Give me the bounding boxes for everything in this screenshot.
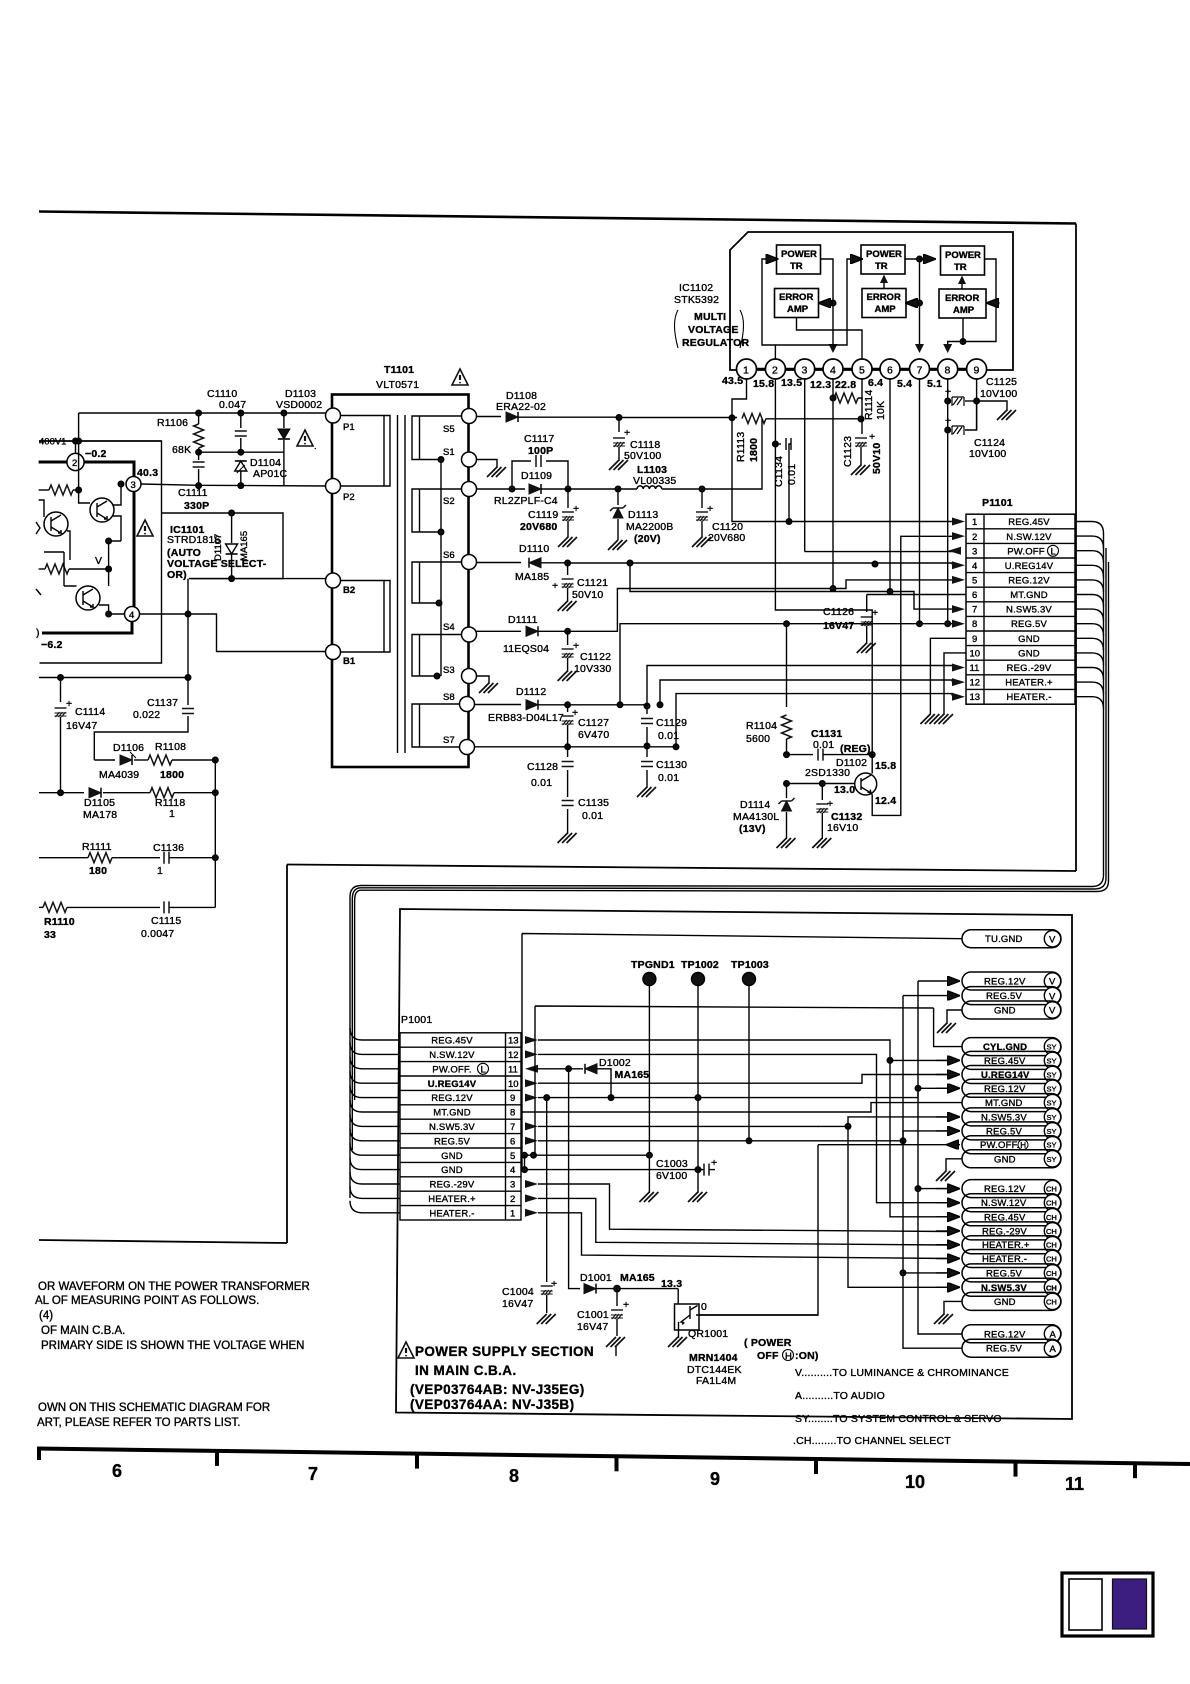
IC1101 outer box — [39, 441, 162, 663]
C1115 capacitor — [164, 901, 215, 913]
pin1 drop wire — [732, 379, 960, 524]
error AMP box 2 — [862, 289, 906, 318]
svg-text:C1122: C1122 — [580, 651, 611, 663]
R1104 resistor — [782, 621, 792, 757]
primary winding P1-P2 — [333, 416, 390, 487]
svg-text:A..........TO AUDIO: A..........TO AUDIO — [795, 1390, 885, 1402]
svg-text:TPGND1: TPGND1 — [631, 959, 675, 971]
ground stub GND V — [937, 1010, 962, 1033]
svg-text:13.5: 13.5 — [781, 377, 802, 389]
svg-text:H: H — [785, 1351, 792, 1362]
svg-text:0.047: 0.047 — [219, 399, 246, 411]
svg-text:HEATER.-: HEATER.- — [429, 1208, 474, 1219]
svg-text:N.SW.12V: N.SW.12V — [429, 1050, 475, 1061]
svg-text:CH: CH — [1046, 1213, 1057, 1222]
R1104 labels — [746, 720, 777, 745]
5V net S8 — [565, 621, 952, 708]
svg-text:T1101: T1101 — [384, 364, 414, 376]
svg-text::ON): :ON) — [795, 1350, 819, 1362]
pill N.SW5.3V SY — [936, 1108, 1061, 1126]
pill TU.GND V — [962, 930, 1061, 948]
C1126 capacitor — [857, 595, 879, 654]
svg-text:C1121: C1121 — [577, 577, 608, 589]
svg-text:4: 4 — [510, 1165, 515, 1176]
svg-text:+: + — [573, 503, 579, 515]
svg-text:H: H — [1020, 1141, 1026, 1150]
svg-text:15.8: 15.8 — [875, 760, 896, 772]
svg-text:43.5: 43.5 — [722, 375, 743, 387]
C1125 labels — [980, 376, 1017, 400]
R1111 labels — [82, 841, 112, 877]
row7 wire NSW53V — [538, 1117, 948, 1129]
svg-text:5: 5 — [510, 1151, 515, 1162]
IC1102 labels — [674, 282, 719, 306]
svg-text:S5: S5 — [443, 424, 455, 435]
svg-text:13.3: 13.3 — [661, 1278, 682, 1290]
C1124 labels — [969, 437, 1006, 460]
pin5 drop wire — [861, 379, 863, 434]
pin P2 — [326, 479, 355, 504]
wire bundle left vertical — [350, 897, 355, 1198]
svg-text:RL2ZPLF-C4: RL2ZPLF-C4 — [494, 495, 558, 507]
IC1101 inner box — [162, 513, 284, 579]
C1121 capacitor — [552, 563, 577, 611]
svg-text:CH: CH — [1046, 1269, 1057, 1278]
C1111 labels — [178, 487, 209, 512]
svg-text:VLT0571: VLT0571 — [376, 379, 419, 391]
D1114 zener — [777, 784, 796, 849]
svg-text:IC1102: IC1102 — [679, 282, 713, 294]
row11 wire PWOFF — [538, 1068, 583, 1070]
power TR box 2 — [861, 245, 905, 274]
C1004 capacitor — [537, 1098, 558, 1324]
svg-text:D1111: D1111 — [508, 614, 538, 626]
svg-text:POWER SUPPLY SECTION: POWER SUPPLY SECTION — [415, 1344, 594, 1359]
svg-text:S4: S4 — [443, 622, 455, 633]
svg-text:U.REG14V: U.REG14V — [428, 1079, 477, 1090]
ruler tick 1 — [215, 1451, 219, 1466]
svg-text:AP01C: AP01C — [253, 468, 287, 480]
Q1102 emitter net 12.4 — [872, 536, 953, 815]
svg-text:REG.12V: REG.12V — [1008, 576, 1050, 587]
C1126 labels — [823, 606, 854, 632]
D1104 label — [250, 457, 287, 480]
bottom section box — [396, 909, 1072, 1419]
svg-text:0.01: 0.01 — [813, 739, 834, 751]
svg-text:): ) — [36, 627, 40, 639]
-29V net wire — [644, 666, 952, 709]
base wire Q upper — [79, 490, 90, 503]
Q1102 base wire — [784, 781, 855, 787]
svg-text:20V680: 20V680 — [520, 521, 557, 533]
pin8 drop wire — [945, 379, 951, 627]
svg-text:.CH........TO CHANNEL SELECT: .CH........TO CHANNEL SELECT — [793, 1435, 951, 1447]
svg-text:5: 5 — [972, 576, 977, 587]
svg-text:MT.GND: MT.GND — [433, 1108, 471, 1119]
svg-text:GND: GND — [441, 1151, 463, 1162]
svg-text:TP1003: TP1003 — [731, 959, 769, 971]
pin S7 — [443, 735, 475, 755]
C1122 capacitor — [558, 631, 580, 681]
svg-text:.: . — [314, 441, 317, 452]
C1003 capacitor — [688, 1157, 717, 1202]
D1113 labels — [626, 509, 674, 545]
C1136 labels — [153, 842, 184, 877]
svg-text:+: + — [623, 1299, 629, 1311]
C1121 labels — [572, 577, 608, 601]
svg-text:R1113: R1113 — [735, 432, 747, 462]
C1114 labels — [66, 706, 105, 732]
pin 7 — [897, 359, 930, 390]
D1113 zener — [608, 489, 627, 550]
D1106 labels — [99, 742, 144, 781]
pin S1 — [443, 447, 477, 467]
pin 6 — [868, 359, 900, 389]
45V net wire — [616, 415, 737, 421]
ruler tick 4 — [814, 1459, 818, 1474]
pin6 drop wire — [889, 379, 891, 592]
svg-text:ART, PLEASE REFER TO PARTS LIS: ART, PLEASE REFER TO PARTS LIST. — [37, 1417, 240, 1429]
20V net junction — [615, 486, 621, 492]
svg-text:R1104: R1104 — [746, 720, 777, 732]
svg-text:5.1: 5.1 — [927, 378, 942, 390]
pin P1 — [326, 408, 355, 433]
row10 wire UREG14V — [538, 1075, 948, 1084]
transistor Q upper — [90, 498, 114, 522]
svg-text:13: 13 — [970, 692, 981, 703]
P1101 GND row10 wire — [934, 653, 966, 724]
pill N.SW5.3V CH — [936, 1278, 1061, 1296]
svg-text:3: 3 — [131, 480, 136, 491]
wire bundle right vertical — [1104, 534, 1109, 882]
C1004 labels — [502, 1286, 534, 1310]
svg-text:REG.12V: REG.12V — [431, 1093, 473, 1104]
svg-text:40.3: 40.3 — [137, 467, 158, 479]
svg-text:AL OF MEASURING POINT AS FOLLO: AL OF MEASURING POINT AS FOLLOWS. — [35, 1295, 259, 1307]
error AMP box 1 — [775, 289, 819, 318]
svg-text:MT.GND: MT.GND — [1010, 590, 1048, 601]
wires transistor mesh — [109, 481, 124, 541]
svg-text:IN MAIN C.B.A.: IN MAIN C.B.A. — [415, 1363, 517, 1378]
svg-text:2: 2 — [972, 532, 977, 543]
svg-text:REG.5V: REG.5V — [434, 1136, 471, 1147]
D1111 diode — [526, 626, 568, 636]
secondary winding S4 — [412, 635, 468, 677]
R1114 resistor — [834, 393, 862, 403]
wire S2 to D1109 — [477, 488, 526, 490]
D1105 labels — [83, 797, 117, 821]
pill REG.5V SY — [936, 1122, 1061, 1140]
svg-text:R1110: R1110 — [44, 916, 75, 928]
pill MT.GND SY — [962, 1094, 1061, 1112]
C1128 labels — [527, 761, 558, 789]
C1124 capacitor — [945, 401, 977, 435]
svg-text:3: 3 — [510, 1180, 515, 1191]
pill REG.12V CH — [936, 1180, 1061, 1198]
svg-text:CH: CH — [1046, 1185, 1057, 1194]
D1108 diode — [506, 412, 619, 422]
svg-text:C1126: C1126 — [823, 606, 854, 618]
svg-text:10K: 10K — [875, 401, 887, 420]
outer schematic border top — [39, 212, 1076, 224]
pin S6 — [443, 550, 477, 570]
svg-text:REG.-29V: REG.-29V — [430, 1180, 475, 1191]
svg-text:C1119: C1119 — [528, 509, 558, 521]
row2 wire HEATER+ — [538, 1198, 948, 1245]
D1105 wire — [39, 790, 84, 796]
svg-text:V: V — [1049, 1006, 1056, 1017]
pin3 drop wire PW.OFF — [805, 379, 960, 552]
svg-text:V: V — [95, 555, 102, 567]
D1108 labels — [496, 390, 546, 413]
power TR box 3 — [941, 246, 985, 275]
svg-text:( POWER: ( POWER — [744, 1337, 792, 1349]
warning triangle right of D1103 — [297, 430, 317, 452]
svg-text:9: 9 — [710, 1469, 720, 1489]
IC1102 block outline — [730, 232, 1013, 370]
thick wire node3 to node4 — [133, 492, 136, 608]
svg-text:15.8: 15.8 — [753, 378, 774, 390]
node2 to 400V1 wire stub — [73, 438, 79, 453]
R1118 resistor — [150, 788, 218, 798]
svg-text:+: + — [945, 386, 951, 398]
svg-text:REGULATOR: REGULATOR — [682, 337, 750, 349]
GND V wire — [535, 1006, 962, 1155]
R1106 resistor — [194, 410, 204, 455]
pin 8 — [927, 359, 958, 390]
secondary winding S5-S1 — [412, 416, 468, 460]
TP1003 test point — [731, 959, 769, 1144]
svg-text:OF MAIN C.B.A.: OF MAIN C.B.A. — [41, 1325, 125, 1337]
svg-text:SY: SY — [1047, 1056, 1057, 1065]
C1129 labels — [656, 717, 687, 742]
P1001 PW.OFF L circle — [478, 1063, 489, 1075]
IC1102 internal wiring ch1 — [762, 259, 862, 359]
QR1001 transistor — [668, 1289, 818, 1347]
svg-text:+: + — [869, 431, 875, 443]
svg-text:10V330: 10V330 — [574, 663, 611, 675]
svg-text:U.REG14V: U.REG14V — [1005, 561, 1054, 572]
D1107 diode vertical — [226, 510, 238, 581]
svg-text:7: 7 — [510, 1122, 515, 1133]
C1123 capacitor — [851, 431, 875, 475]
svg-text:330P: 330P — [184, 500, 209, 512]
pin 2 — [753, 359, 785, 390]
C1120 labels — [708, 521, 745, 544]
R1114 labels rotated — [863, 390, 887, 420]
svg-text:6V470: 6V470 — [578, 729, 609, 741]
R1111 resistor — [39, 853, 160, 863]
C1134 labels rotated — [773, 456, 798, 487]
pin 4 — [810, 359, 843, 391]
svg-text:OWN ON THIS SCHEMATIC DIAGRAM: OWN ON THIS SCHEMATIC DIAGRAM FOR — [38, 1402, 270, 1414]
svg-text:SY: SY — [1047, 1099, 1057, 1108]
wire V node vertical — [106, 538, 112, 586]
TPGND1 test point — [631, 959, 675, 1202]
svg-text:C1130: C1130 — [656, 759, 687, 771]
wire B2 to inner box — [189, 578, 326, 580]
C1122 labels — [574, 651, 611, 675]
vertical net x215 — [213, 760, 219, 907]
svg-text:7: 7 — [972, 605, 977, 616]
svg-text:68K: 68K — [172, 444, 191, 456]
pin B1 — [326, 645, 356, 668]
wire S7 — [475, 743, 679, 749]
secondary tap wire — [434, 457, 444, 679]
pill REG.5V CH — [936, 1264, 1061, 1282]
pin9 drop wire — [974, 379, 1007, 430]
svg-text:C1111: C1111 — [178, 487, 208, 499]
svg-text:0.01: 0.01 — [658, 772, 679, 784]
R1106 labels — [157, 417, 191, 456]
PW.OFF L circle — [1048, 545, 1059, 557]
svg-text:CH: CH — [1046, 1283, 1057, 1292]
svg-text:AMP: AMP — [787, 304, 809, 315]
row9 wire REG12V — [538, 1086, 948, 1101]
svg-text:C1001: C1001 — [577, 1309, 609, 1321]
link S8 net to C1129 — [617, 702, 647, 708]
IC1102 pin row line — [737, 368, 986, 371]
C1110 label — [207, 388, 246, 411]
svg-text:0: 0 — [701, 1301, 707, 1313]
wire S4 to D1111 — [477, 630, 522, 632]
svg-text:C1128: C1128 — [527, 761, 558, 773]
svg-text:(VEP03764AB: NV-J35EG): (VEP03764AB: NV-J35EG) — [410, 1382, 585, 1397]
svg-text:MA178: MA178 — [83, 809, 117, 821]
svg-text:R1108: R1108 — [155, 741, 186, 753]
svg-text:2SD1330: 2SD1330 — [805, 767, 850, 779]
pill REG.12V V — [946, 972, 1061, 990]
TP1002 test point — [681, 959, 719, 1170]
svg-text:R1114: R1114 — [863, 390, 875, 420]
P1001 pin labels — [428, 1036, 477, 1220]
D1001 wire — [569, 1069, 580, 1289]
Q1102 transistor — [855, 773, 877, 795]
N.SW5.3V wire row7 — [627, 560, 952, 609]
svg-text:S7: S7 — [443, 735, 455, 746]
pin4 drop wire — [830, 379, 836, 591]
REG12V vertical to CH and A — [915, 981, 962, 1334]
svg-text:9: 9 — [510, 1093, 515, 1104]
resistor mid (cut) — [39, 564, 112, 574]
C1132 labels — [827, 811, 862, 834]
R1108 resistor — [148, 755, 218, 765]
svg-text:CH: CH — [1046, 1297, 1057, 1306]
svg-text:S6: S6 — [443, 550, 455, 561]
pin7 drop wire — [919, 379, 921, 624]
P1001 row arrows — [525, 1036, 538, 1217]
svg-text:+: + — [707, 503, 713, 515]
outer border right edge — [1075, 224, 1077, 872]
R1108 labels — [155, 741, 186, 781]
TU.GND wire — [522, 934, 962, 1170]
svg-text:S8: S8 — [443, 692, 455, 703]
pill HEATER.+ CH — [936, 1236, 1061, 1254]
svg-text:AMP: AMP — [875, 304, 897, 315]
D1112 diode — [526, 700, 568, 710]
C1125 capacitor — [945, 386, 977, 406]
svg-text:L: L — [1051, 547, 1056, 558]
row12 wire NSW12V — [538, 1054, 948, 1202]
svg-text:C1123: C1123 — [842, 436, 854, 467]
cut glyph marks left edge — [36, 522, 41, 595]
D1111 labels — [503, 614, 549, 655]
svg-text:TU.GND: TU.GND — [985, 934, 1023, 945]
P1101 fan curves to bundle — [1075, 522, 1104, 709]
svg-text:0.01: 0.01 — [531, 777, 552, 789]
D1001 diode — [584, 1284, 678, 1294]
C1118 labels — [624, 439, 661, 462]
svg-text:CH: CH — [1046, 1199, 1057, 1208]
svg-text:6: 6 — [112, 1461, 122, 1481]
svg-text:0.022: 0.022 — [133, 709, 160, 721]
HEATER- net wire — [676, 694, 952, 747]
thick wire node2 to node3 — [84, 462, 134, 477]
svg-text:R1106: R1106 — [157, 417, 188, 429]
row6 wire REG5V — [538, 1131, 948, 1144]
svg-text:1: 1 — [510, 1208, 515, 1219]
C1128 capacitor — [562, 747, 574, 797]
svg-text:11: 11 — [970, 663, 980, 674]
svg-text:D1113: D1113 — [628, 509, 658, 521]
C1123 labels rotated — [842, 436, 883, 474]
svg-text:MA4130L: MA4130L — [733, 811, 779, 823]
pin S5 — [443, 409, 477, 436]
svg-text:0.01: 0.01 — [786, 464, 798, 485]
svg-text:SY: SY — [1047, 1155, 1057, 1164]
svg-text:4: 4 — [972, 561, 977, 572]
svg-text:D1001: D1001 — [580, 1272, 612, 1284]
pin S2 — [443, 482, 477, 508]
svg-text:D1105: D1105 — [84, 797, 115, 809]
svg-text:CH: CH — [1046, 1241, 1057, 1250]
svg-text:D1112: D1112 — [516, 686, 546, 698]
pill GND SY — [962, 1150, 1061, 1168]
pin2 drop wire — [773, 379, 873, 755]
svg-text:SY: SY — [1047, 1084, 1057, 1093]
D1104 diode — [235, 461, 247, 488]
svg-text:C1003: C1003 — [656, 1158, 688, 1170]
node 3 circle — [126, 477, 141, 492]
R1113 labels rotated — [735, 432, 760, 462]
svg-text:MA185: MA185 — [515, 571, 549, 583]
pill REG.45V SY — [936, 1051, 1061, 1069]
R1113 resistor — [742, 414, 864, 424]
svg-text:50V100: 50V100 — [624, 450, 661, 462]
R1110 labels — [44, 916, 75, 941]
svg-text:12.3: 12.3 — [810, 379, 831, 391]
20V wire right to C1134 column — [699, 419, 762, 492]
svg-text:MRN1404: MRN1404 — [689, 1352, 738, 1364]
ruler end tick left — [37, 1447, 41, 1460]
C1119 labels — [520, 509, 558, 533]
svg-text:MA4039: MA4039 — [99, 769, 139, 781]
svg-text:6: 6 — [887, 365, 893, 377]
pin 1 — [722, 359, 757, 387]
svg-text:MA165: MA165 — [620, 1272, 655, 1284]
svg-text:GND: GND — [994, 1154, 1016, 1165]
svg-text:AMP: AMP — [953, 305, 975, 316]
svg-text:13.0: 13.0 — [834, 784, 855, 796]
C1131 labels — [811, 728, 871, 755]
12V net S4 — [565, 580, 952, 634]
svg-text:8: 8 — [509, 1466, 519, 1486]
wire node4 right — [140, 611, 326, 651]
svg-text:12: 12 — [970, 678, 981, 689]
svg-text:C1137: C1137 — [147, 697, 178, 709]
svg-text:MA165: MA165 — [239, 531, 250, 561]
C1110 capacitor — [235, 410, 247, 455]
